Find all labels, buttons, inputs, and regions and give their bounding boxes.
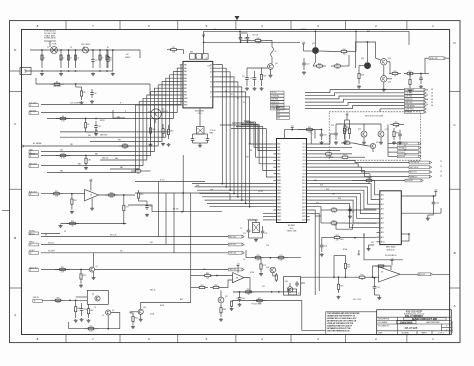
svg-text:DISP ENB: DISP ENB bbox=[271, 99, 278, 101]
svg-text:Q7: Q7 bbox=[96, 266, 98, 268]
svg-text:C26: C26 bbox=[266, 245, 269, 247]
svg-text:470: 470 bbox=[336, 239, 339, 241]
svg-text:1/4W: 1/4W bbox=[340, 239, 344, 241]
svg-text:R59: R59 bbox=[345, 140, 348, 142]
svg-text:POWER INPUT: POWER INPUT bbox=[44, 38, 57, 40]
svg-text:BUS: BUS bbox=[367, 31, 370, 33]
svg-text:COMP BLK: COMP BLK bbox=[271, 108, 278, 110]
svg-text:VR1 LM309: VR1 LM309 bbox=[81, 44, 90, 46]
svg-text:R47: R47 bbox=[336, 63, 339, 65]
svg-text:DD15: DD15 bbox=[302, 193, 306, 195]
svg-text:U8: U8 bbox=[236, 278, 238, 280]
svg-text:Q11: Q11 bbox=[275, 63, 278, 65]
svg-text:MODULE: MODULE bbox=[387, 249, 395, 251]
svg-text:R77: R77 bbox=[258, 298, 261, 300]
svg-text:DISP ENB: DISP ENB bbox=[405, 96, 412, 98]
svg-text:R71: R71 bbox=[279, 255, 282, 257]
svg-text:DD2: DD2 bbox=[326, 189, 329, 191]
svg-text:KBD ROW: KBD ROW bbox=[100, 135, 108, 137]
svg-text:C29: C29 bbox=[396, 126, 399, 128]
svg-text:1/23/96: 1/23/96 bbox=[401, 333, 409, 335]
svg-text:C25: C25 bbox=[243, 233, 246, 235]
svg-text:C31 C32: C31 C32 bbox=[252, 35, 258, 37]
svg-text:1000/1400: 1000/1400 bbox=[400, 320, 413, 324]
svg-text:R73: R73 bbox=[247, 289, 250, 291]
svg-text:CHB: CHB bbox=[330, 157, 333, 159]
svg-text:Y2: Y2 bbox=[240, 228, 242, 230]
svg-text:C35: C35 bbox=[262, 286, 265, 288]
svg-text:DD19: DD19 bbox=[302, 206, 306, 208]
svg-text:C42 .1 25V: C42 .1 25V bbox=[353, 299, 362, 301]
svg-text:R32: R32 bbox=[83, 275, 86, 277]
svg-text:D1: D1 bbox=[231, 94, 233, 96]
svg-text:C6: C6 bbox=[101, 58, 103, 60]
svg-text:LOW SYNC DN: LOW SYNC DN bbox=[398, 143, 408, 145]
svg-text:330: 330 bbox=[336, 68, 339, 70]
svg-text:R48: R48 bbox=[361, 75, 364, 77]
svg-text:R52: R52 bbox=[308, 127, 311, 129]
svg-text:C17: C17 bbox=[126, 207, 129, 209]
svg-text:Q17: Q17 bbox=[385, 129, 388, 131]
svg-text:C27: C27 bbox=[324, 135, 327, 137]
svg-text:PB0: PB0 bbox=[95, 130, 98, 132]
svg-text:Q18: Q18 bbox=[266, 267, 269, 269]
svg-text:DD0: DD0 bbox=[303, 144, 306, 146]
svg-text:MAIN CERTIFIED: MAIN CERTIFIED bbox=[426, 321, 440, 324]
svg-text:R44: R44 bbox=[342, 49, 345, 51]
svg-text:J1: J1 bbox=[30, 105, 32, 107]
svg-text:J1: J1 bbox=[30, 166, 32, 168]
svg-text:R41: R41 bbox=[135, 318, 138, 320]
svg-text:10K: 10K bbox=[203, 269, 206, 271]
svg-text:HS 15.7K: HS 15.7K bbox=[110, 234, 116, 236]
svg-text:DD23: DD23 bbox=[302, 220, 306, 222]
svg-text:DD11: DD11 bbox=[302, 180, 306, 182]
svg-text:LOW DISP DN: LOW DISP DN bbox=[410, 162, 419, 164]
svg-text:LOW SYNC: LOW SYNC bbox=[405, 93, 412, 95]
svg-text:R51: R51 bbox=[408, 71, 411, 73]
svg-text:C8: C8 bbox=[94, 93, 96, 95]
svg-text:R2: R2 bbox=[56, 82, 58, 84]
svg-text:J1: J1 bbox=[30, 270, 32, 272]
svg-text:R56: R56 bbox=[346, 130, 349, 132]
svg-text:J6: J6 bbox=[298, 293, 300, 295]
svg-text:DD4: DD4 bbox=[303, 157, 306, 159]
svg-text:HSYNC: HSYNC bbox=[29, 234, 36, 236]
svg-text:VSYNC: VSYNC bbox=[29, 231, 36, 233]
svg-text:C1: C1 bbox=[43, 58, 45, 60]
svg-text:E: E bbox=[120, 103, 121, 105]
svg-text:C20: C20 bbox=[84, 309, 87, 311]
svg-text:J3: J3 bbox=[34, 301, 36, 303]
svg-text:SND IN: SND IN bbox=[33, 297, 40, 299]
svg-text:Q21: Q21 bbox=[225, 296, 228, 298]
svg-text:SHEET: SHEET bbox=[421, 333, 426, 335]
svg-text:+12V: +12V bbox=[125, 54, 129, 56]
svg-text:UNREG: UNREG bbox=[125, 57, 131, 59]
svg-text:C1: C1 bbox=[47, 47, 49, 49]
svg-text:J1: J1 bbox=[30, 156, 32, 158]
svg-text:VID 1VPP: VID 1VPP bbox=[48, 251, 55, 253]
svg-text:DD5: DD5 bbox=[303, 160, 306, 162]
svg-text:B: B bbox=[14, 236, 16, 240]
svg-text:Q19: Q19 bbox=[285, 281, 288, 283]
svg-text:VIDEO GEN: VIDEO GEN bbox=[287, 230, 297, 232]
svg-text:U9: U9 bbox=[381, 271, 383, 273]
svg-text:MOD GOOD ON 1488: MOD GOOD ON 1488 bbox=[365, 116, 383, 118]
svg-text:Q4: Q4 bbox=[162, 109, 164, 111]
svg-text:D3: D3 bbox=[210, 77, 212, 79]
svg-text:HS: HS bbox=[45, 234, 47, 236]
svg-text:C9: C9 bbox=[83, 47, 85, 49]
svg-text:2B: 2B bbox=[426, 94, 428, 96]
svg-text:DOCUMENT: DOCUMENT bbox=[378, 322, 387, 324]
svg-text:R80: R80 bbox=[206, 273, 209, 275]
svg-text:DD13: DD13 bbox=[302, 187, 306, 189]
svg-text:R19: R19 bbox=[140, 194, 143, 196]
svg-text:MOD B DN: MOD B DN bbox=[398, 156, 405, 158]
svg-text:C44: C44 bbox=[236, 298, 239, 300]
svg-text:J2: J2 bbox=[30, 244, 32, 246]
svg-text:2N3904: 2N3904 bbox=[162, 111, 168, 113]
svg-text:C38: C38 bbox=[357, 254, 360, 256]
svg-text:SER IN: SER IN bbox=[29, 153, 36, 155]
svg-text:Y: Y bbox=[356, 163, 357, 165]
svg-text:R83: R83 bbox=[223, 309, 226, 311]
svg-text:MHZ: MHZ bbox=[210, 132, 214, 134]
svg-text:R21: R21 bbox=[55, 191, 58, 193]
svg-text:CLK 3.5 MHZ: CLK 3.5 MHZ bbox=[70, 102, 80, 104]
svg-text:459-033-453P: 459-033-453P bbox=[406, 309, 423, 313]
svg-text:Q20: Q20 bbox=[376, 142, 379, 144]
svg-text:Q9: Q9 bbox=[112, 310, 114, 312]
svg-text:R50: R50 bbox=[393, 71, 396, 73]
svg-text:R81: R81 bbox=[200, 285, 203, 287]
svg-text:VERT DRV: VERT DRV bbox=[405, 102, 412, 104]
svg-text:75: 75 bbox=[394, 75, 396, 77]
svg-text:A: A bbox=[454, 304, 456, 308]
svg-text:PB1: PB1 bbox=[88, 135, 91, 137]
svg-text:C3: C3 bbox=[70, 47, 72, 49]
svg-text:HORZ DRV: HORZ DRV bbox=[405, 99, 412, 101]
svg-text:R26: R26 bbox=[71, 221, 74, 223]
svg-text:PX 30.5 KHZ: PX 30.5 KHZ bbox=[252, 304, 262, 306]
svg-text:Q13: Q13 bbox=[361, 58, 364, 60]
svg-text:DD4: DD4 bbox=[338, 198, 341, 200]
svg-text:R1: R1 bbox=[107, 47, 109, 49]
svg-text:D5: D5 bbox=[210, 87, 212, 89]
svg-text:C3: C3 bbox=[70, 58, 72, 60]
svg-text:6883 SAM: 6883 SAM bbox=[386, 246, 396, 249]
svg-text:D0: D0 bbox=[210, 64, 212, 66]
svg-text:DN: DN bbox=[404, 154, 406, 156]
svg-text:DD7: DD7 bbox=[303, 167, 306, 169]
svg-text:08-07328: 08-07328 bbox=[405, 326, 418, 330]
svg-text:DD18: DD18 bbox=[302, 203, 306, 205]
svg-text:R8: R8 bbox=[62, 116, 64, 118]
svg-text:D6: D6 bbox=[210, 92, 212, 94]
svg-text:RS232: RS232 bbox=[100, 120, 105, 122]
svg-text:CR2: CR2 bbox=[88, 159, 91, 161]
svg-text:DD6: DD6 bbox=[303, 163, 306, 165]
svg-text:D4: D4 bbox=[210, 82, 212, 84]
svg-text:47: 47 bbox=[110, 60, 112, 62]
svg-text:R11: R11 bbox=[124, 143, 127, 145]
svg-text:R70: R70 bbox=[256, 255, 259, 257]
svg-text:GRN 1.5M: GRN 1.5M bbox=[229, 253, 236, 255]
svg-text:R24: R24 bbox=[110, 192, 113, 194]
svg-text:DD1: DD1 bbox=[303, 147, 306, 149]
svg-text:R4: R4 bbox=[172, 47, 174, 49]
svg-text:BLK 1.5M: BLK 1.5M bbox=[229, 244, 236, 246]
svg-text:R39: R39 bbox=[89, 326, 92, 328]
svg-text:100 1/4W: 100 1/4W bbox=[53, 86, 61, 88]
svg-text:DD3: DD3 bbox=[332, 194, 335, 196]
svg-text:VERT DRV: VERT DRV bbox=[271, 105, 278, 107]
svg-text:DD21: DD21 bbox=[302, 213, 306, 215]
svg-text:DD1: DD1 bbox=[320, 185, 323, 187]
svg-text:DD12: DD12 bbox=[302, 183, 306, 185]
svg-text:J1: J1 bbox=[30, 194, 32, 196]
svg-text:DD17: DD17 bbox=[302, 200, 306, 202]
svg-text:DD8: DD8 bbox=[303, 170, 306, 172]
svg-text:R75: R75 bbox=[360, 275, 363, 277]
svg-text:R63: R63 bbox=[335, 235, 338, 237]
svg-text:C40: C40 bbox=[436, 203, 439, 205]
svg-text:HORZ DRV: HORZ DRV bbox=[271, 102, 279, 104]
svg-text:D7: D7 bbox=[210, 97, 212, 99]
svg-text:B: B bbox=[454, 251, 456, 255]
svg-text:CSS: CSS bbox=[248, 144, 251, 146]
svg-text:DD9: DD9 bbox=[303, 173, 306, 175]
svg-text:C2: C2 bbox=[62, 58, 64, 60]
svg-text:R57: R57 bbox=[343, 155, 346, 157]
svg-text:P.N 509 AB 30: P.N 509 AB 30 bbox=[385, 254, 397, 257]
svg-text:+5V: +5V bbox=[213, 29, 216, 31]
svg-text:C5: C5 bbox=[95, 60, 97, 62]
svg-text:DN: DN bbox=[404, 145, 406, 147]
svg-text:DD16: DD16 bbox=[302, 196, 306, 198]
svg-text:R55: R55 bbox=[394, 122, 397, 124]
svg-text:RP 10K: RP 10K bbox=[173, 209, 179, 211]
svg-text:Q15: Q15 bbox=[388, 82, 391, 84]
svg-text:2B: 2B bbox=[426, 104, 428, 106]
svg-text:DD10: DD10 bbox=[302, 177, 306, 179]
svg-text:D2: D2 bbox=[210, 72, 212, 74]
svg-text:TP CLK: TP CLK bbox=[271, 92, 276, 94]
svg-text:R31: R31 bbox=[61, 267, 64, 269]
svg-text:DD2: DD2 bbox=[303, 150, 306, 152]
svg-text:SER OUT: SER OUT bbox=[29, 163, 38, 165]
svg-text:EXT: EXT bbox=[246, 157, 249, 159]
svg-text:D3: D3 bbox=[243, 102, 245, 104]
svg-text:C15: C15 bbox=[149, 206, 152, 208]
svg-text:R62: R62 bbox=[332, 220, 335, 222]
svg-text:Q8: Q8 bbox=[92, 293, 94, 295]
svg-text:Q12: Q12 bbox=[312, 43, 315, 45]
svg-text:C30: C30 bbox=[324, 246, 327, 248]
svg-text:DD0: DD0 bbox=[314, 180, 317, 182]
svg-text:R37: R37 bbox=[90, 310, 93, 312]
svg-text:L1: L1 bbox=[328, 151, 330, 153]
svg-text:C36: C36 bbox=[242, 298, 245, 300]
svg-text:CB1: CB1 bbox=[70, 144, 73, 146]
svg-text:DWG 08-07328: DWG 08-07328 bbox=[452, 321, 454, 333]
svg-text:R3: R3 bbox=[83, 92, 85, 94]
svg-text:U4: U4 bbox=[90, 195, 92, 197]
svg-text:D2: D2 bbox=[237, 98, 239, 100]
svg-text:620: 620 bbox=[110, 197, 113, 199]
svg-text:C24: C24 bbox=[306, 64, 309, 66]
svg-text:100: 100 bbox=[137, 173, 140, 175]
svg-text:DD5: DD5 bbox=[316, 203, 319, 205]
svg-text:CB2: CB2 bbox=[60, 150, 63, 152]
svg-text:C11: C11 bbox=[98, 126, 101, 128]
svg-text:DESCRIPTION: DESCRIPTION bbox=[378, 318, 390, 320]
svg-text:DD20: DD20 bbox=[302, 210, 306, 212]
svg-text:KBD COL: KBD COL bbox=[102, 158, 109, 160]
svg-text:VIDEO OUT: VIDEO OUT bbox=[430, 58, 438, 60]
svg-text:J1: J1 bbox=[30, 113, 32, 115]
svg-text:E: E bbox=[196, 58, 197, 60]
svg-text:Q10: Q10 bbox=[143, 307, 146, 309]
svg-text:PB2: PB2 bbox=[118, 140, 121, 142]
svg-text:VS: VS bbox=[64, 231, 66, 233]
svg-text:R82: R82 bbox=[214, 285, 217, 287]
svg-text:A: A bbox=[14, 313, 16, 317]
svg-text:DD14: DD14 bbox=[302, 190, 306, 192]
svg-text:LOW SYNC: LOW SYNC bbox=[271, 95, 279, 97]
svg-text:1K: 1K bbox=[94, 307, 96, 309]
svg-text:C21: C21 bbox=[242, 76, 245, 78]
svg-text:J2: J2 bbox=[30, 253, 32, 255]
svg-text:FD 262.5: FD 262.5 bbox=[48, 242, 54, 244]
svg-text:C22: C22 bbox=[250, 78, 253, 80]
svg-text:R42: R42 bbox=[263, 76, 266, 78]
svg-text:AC SENSE: AC SENSE bbox=[33, 142, 42, 145]
svg-text:220: 220 bbox=[347, 267, 350, 269]
svg-text:R14: R14 bbox=[61, 153, 64, 155]
svg-text:R15: R15 bbox=[152, 129, 155, 131]
svg-text:L2: L2 bbox=[275, 51, 277, 53]
svg-text:DN: DN bbox=[404, 149, 406, 151]
svg-text:1 OF 2: 1 OF 2 bbox=[438, 333, 444, 335]
svg-text:3.5: 3.5 bbox=[363, 235, 365, 237]
svg-text:R23: R23 bbox=[74, 200, 77, 202]
svg-text:Q14: Q14 bbox=[388, 58, 391, 60]
svg-text:C4: C4 bbox=[77, 58, 79, 60]
svg-text:D0: D0 bbox=[225, 91, 227, 93]
svg-text:R46: R46 bbox=[318, 63, 321, 65]
svg-text:R35: R35 bbox=[56, 298, 59, 300]
svg-text:R61: R61 bbox=[332, 207, 335, 209]
svg-text:C20: C20 bbox=[244, 38, 247, 40]
svg-text:CLK OUT: CLK OUT bbox=[29, 102, 38, 104]
svg-text:DD22: DD22 bbox=[302, 216, 306, 218]
svg-text:R16: R16 bbox=[170, 131, 173, 133]
svg-text:MAIN CIRCUIT BD: MAIN CIRCUIT BD bbox=[412, 317, 437, 321]
svg-text:RED 1.5M: RED 1.5M bbox=[229, 236, 236, 238]
svg-text:INT: INT bbox=[250, 150, 253, 152]
svg-text:R40: R40 bbox=[256, 38, 259, 40]
svg-text:WRITTEN PERMISSION OF: WRITTEN PERMISSION OF bbox=[327, 331, 349, 333]
svg-text:DD3: DD3 bbox=[303, 154, 306, 156]
svg-text:GM1: GM1 bbox=[210, 190, 213, 192]
svg-text:C28: C28 bbox=[331, 125, 334, 127]
svg-text:R17: R17 bbox=[136, 168, 139, 170]
svg-text:R72: R72 bbox=[263, 265, 266, 267]
svg-text:Q16: Q16 bbox=[358, 129, 361, 131]
svg-text:VERT DN DN: VERT DN DN bbox=[410, 167, 418, 169]
svg-text:+5V BUS: +5V BUS bbox=[300, 29, 306, 31]
svg-text:C41: C41 bbox=[377, 287, 380, 289]
svg-text:SND 1K: SND 1K bbox=[150, 290, 155, 292]
svg-text:330: 330 bbox=[343, 53, 346, 55]
svg-text:SOUND IN: SOUND IN bbox=[406, 180, 413, 182]
svg-text:COMP SYNC: COMP SYNC bbox=[405, 109, 413, 111]
svg-text:C26: C26 bbox=[265, 233, 268, 235]
svg-text:RES: RES bbox=[190, 52, 193, 54]
svg-text:GM0: GM0 bbox=[196, 185, 199, 187]
svg-text:D1: D1 bbox=[210, 68, 212, 70]
svg-text:R76: R76 bbox=[340, 285, 343, 287]
svg-text:R9: R9 bbox=[87, 124, 89, 126]
